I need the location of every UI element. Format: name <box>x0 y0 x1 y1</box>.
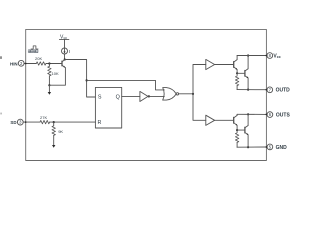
node SD border crossing <box>25 121 27 123</box>
node top feed junction <box>86 79 88 81</box>
pin 8 Vcc <box>267 53 281 60</box>
wire latch Q to buffer <box>122 95 140 97</box>
svg-text:cc: cc <box>277 55 281 59</box>
node upper darlington base node <box>236 72 238 74</box>
svg-text:R: R <box>97 120 101 126</box>
svg-text:6: 6 <box>269 112 272 117</box>
wire SD pin to 27K <box>23 121 40 123</box>
pin 6 OUTS <box>267 112 290 119</box>
wire emitter down and left to 10K bottom <box>49 68 65 86</box>
node Vcc border crossing <box>266 55 268 57</box>
wire Q2 emitter to base node <box>236 70 238 74</box>
node Q3 emitter on OUTD rail <box>247 89 249 91</box>
pin 7 OUTD <box>267 87 290 94</box>
IC boundary <box>26 29 267 160</box>
wire 20K to transistor base <box>46 63 62 65</box>
pin 5 GND <box>267 144 287 151</box>
svg-text:3: 3 <box>19 120 22 125</box>
wire Q3 collector to Vcc rail <box>247 56 249 69</box>
wire base node to Q3 base <box>237 72 245 74</box>
transistor Q1 input NPN <box>62 60 65 68</box>
resistor lower base pulldown <box>235 130 238 147</box>
svg-text:Q: Q <box>116 95 120 101</box>
wire Q2 collector to Vcc rail <box>236 56 238 60</box>
wire Vcc rail <box>237 55 267 57</box>
current source I <box>62 48 70 55</box>
wire OUTD rail <box>237 89 267 91</box>
wire lower buffer to Q4 base <box>215 119 234 121</box>
svg-text:OUTD: OUTD <box>276 88 291 94</box>
node buffer output <box>148 95 150 97</box>
svg-text:9K: 9K <box>58 129 63 134</box>
wire Q4 collector to OUTS rail <box>236 114 238 115</box>
transistor Q3 upper darlington second NPN <box>245 69 248 79</box>
node GND border crossing <box>266 146 268 148</box>
wire NOR output to split node <box>179 93 193 95</box>
Vcc terminal (top) <box>59 34 69 48</box>
wire GND rail <box>237 146 267 148</box>
NOR gate U3 <box>163 88 179 101</box>
scan artifact left edge middle <box>0 113 2 115</box>
resistor upper base pulldown <box>235 73 238 89</box>
transistor Q2 upper darlington first NPN <box>234 60 238 70</box>
svg-text:GND: GND <box>276 145 288 151</box>
buffer U2 <box>140 91 148 101</box>
svg-text:27K: 27K <box>40 115 47 120</box>
wire OUTS rail <box>237 113 267 115</box>
svg-text:2: 2 <box>20 61 23 66</box>
wire long feed to NOR top input <box>87 80 165 90</box>
node 9K junction <box>53 121 55 123</box>
svg-text:5: 5 <box>269 145 272 150</box>
svg-text:8: 8 <box>269 53 272 58</box>
wire split to lower buffer <box>193 94 206 120</box>
wire Q3 emitter to OUTD rail <box>247 78 249 90</box>
node base junction <box>48 62 50 64</box>
node HIN border crossing <box>25 63 27 65</box>
wire Q5 collector to OUTS rail <box>247 114 249 125</box>
svg-text:7: 7 <box>269 87 272 92</box>
wire upper buffer to Q2 base <box>215 64 234 66</box>
resistor 9K <box>52 122 63 145</box>
logic input pulse symbol <box>31 46 38 49</box>
node collector junction <box>64 58 66 60</box>
node Q3 collector on Vcc rail <box>247 54 249 56</box>
wire base node to Q5 base <box>237 129 245 131</box>
transistor Q4 lower darlington first NPN <box>234 115 238 125</box>
buffer U4 upper <box>206 59 215 69</box>
wire 27K to latch R <box>50 121 96 123</box>
svg-text:S: S <box>98 94 102 100</box>
SR latch U1 <box>95 87 121 128</box>
node OUTS border crossing <box>266 114 268 116</box>
pin 3 SD <box>10 119 23 125</box>
node Q5 collector on OUTS rail <box>247 113 249 115</box>
svg-text:HIN: HIN <box>10 62 18 67</box>
transistor Q5 lower darlington second NPN <box>245 126 248 136</box>
wire HIN pin to 20K <box>24 63 36 65</box>
resistor 10K <box>48 64 59 86</box>
node lower darlington base node <box>236 129 238 131</box>
svg-text:OUTS: OUTS <box>276 113 291 119</box>
node 10K bottom junction <box>48 84 50 86</box>
resistor 20K <box>36 62 46 65</box>
ground arrow (SD stage) <box>52 145 55 148</box>
wire buffer to NOR lower input <box>148 95 164 97</box>
pin 2 HIN <box>10 60 24 66</box>
scan artifact left edge top <box>0 56 2 59</box>
svg-text:SD: SD <box>10 120 16 125</box>
svg-text:10K: 10K <box>52 71 59 76</box>
wire collector node right then down to latch S <box>65 60 96 98</box>
wire Q5 emitter to GND rail <box>247 135 249 147</box>
node output split <box>192 93 194 95</box>
svg-text:I: I <box>69 49 70 55</box>
node Q5 emitter on GND rail <box>247 146 249 148</box>
wire Q4 emitter to base node <box>236 125 238 130</box>
node OUTD border crossing <box>266 89 268 91</box>
svg-text:20K: 20K <box>35 56 42 61</box>
ground arrow (input stage) <box>48 85 51 95</box>
resistor 27K <box>40 120 50 123</box>
label 逻辑输入 (logic input) <box>28 50 38 53</box>
buffer U5 lower <box>206 115 215 125</box>
wire current source to collector node <box>64 54 66 60</box>
wire split to upper buffer <box>193 65 206 94</box>
